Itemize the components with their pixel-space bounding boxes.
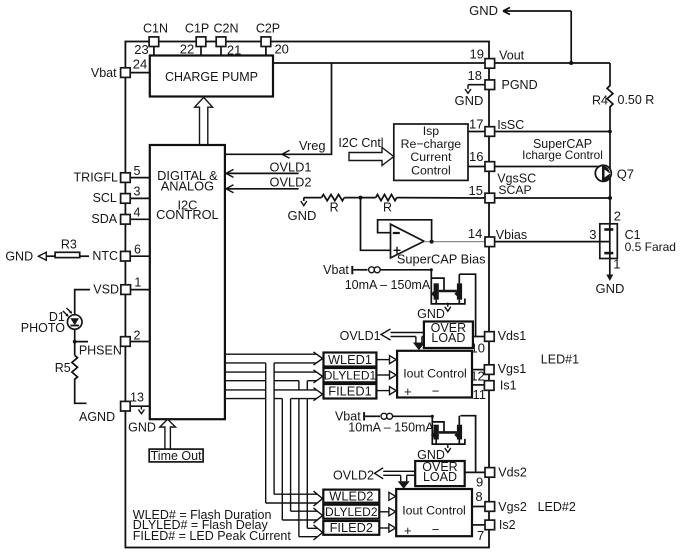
wire hollow arrow I2C Cntl into Isp block	[338, 136, 393, 166]
svg-text:GND: GND	[596, 281, 625, 296]
svg-text:LOAD: LOAD	[431, 331, 465, 345]
svg-text:C2N: C2N	[213, 22, 238, 36]
svg-text:SDA: SDA	[91, 212, 117, 226]
svg-text:C2P: C2P	[256, 22, 280, 36]
wire Vgs1 net (Iout 1 to pin 12)	[472, 369, 485, 371]
svg-text:CHARGE PUMP: CHARGE PUMP	[165, 70, 258, 84]
wire D1 to PHSEN node	[75, 329, 88, 341]
svg-text:0.5 Farad: 0.5 Farad	[625, 240, 676, 254]
pin 6 NTC	[92, 242, 149, 263]
svg-text:SCL: SCL	[93, 191, 117, 205]
wire hollow bus DLYLED1 shaft from digital block	[225, 370, 323, 383]
wire DLYLED1 to Iout 1 with arrow	[376, 371, 396, 379]
wire hollow bus FILED2 shaft	[299, 525, 323, 540]
svg-text:WLED2: WLED2	[329, 489, 373, 504]
svg-text:1: 1	[613, 256, 620, 271]
svg-text:SuperCAP Bias: SuperCAP Bias	[397, 252, 486, 267]
transistor pair current mirror 1	[431, 270, 465, 304]
wire Vds1 net (OVER LOAD 1 to pin 10)	[473, 336, 485, 338]
svg-text:2: 2	[614, 209, 621, 224]
svg-text:Is1: Is1	[500, 378, 517, 392]
FILED1 box	[324, 384, 377, 399]
svg-text:I2C Cntl: I2C Cntl	[338, 136, 383, 150]
svg-text:16: 16	[469, 149, 483, 164]
svg-text:C1P: C1P	[185, 22, 209, 36]
node Vbat tick (LED2 current source)	[335, 410, 380, 424]
svg-text:Vbat: Vbat	[323, 263, 349, 277]
wire divider to pin 15	[397, 197, 485, 199]
current source I2 (10mA-150mA)	[348, 413, 434, 434]
wire GND to resistor R (left)	[304, 197, 322, 199]
svg-text:GND: GND	[469, 3, 498, 18]
svg-text:24: 24	[133, 57, 147, 72]
pin 10 Vds1	[471, 329, 527, 355]
wire VgsSC net pin 16 to Q7 gate	[468, 166, 599, 168]
node Vbat tick (LED1 current source)	[323, 263, 367, 277]
wire SCAP net pin 15 to supercap rail	[495, 197, 610, 199]
wire hollow arrow from digital block to charge pump	[195, 97, 213, 145]
wire Vds2 net (OVER LOAD 2 to pin 9)	[465, 471, 485, 473]
svg-text:GND: GND	[455, 93, 484, 108]
wire hollow arrow from Time Out to digital block	[160, 419, 176, 449]
svg-text:ANALOG: ANALOG	[161, 179, 214, 194]
wire hollow bus WLED1 shaft from digital block	[225, 352, 323, 365]
ground (GND below C1)	[596, 259, 625, 297]
svg-text:20: 20	[274, 42, 288, 57]
svg-text:13: 13	[130, 391, 144, 405]
wire hollow bus DLYLED2 shaft	[282, 508, 322, 523]
wire GND to R3	[46, 255, 55, 257]
wire PHSEN node to R5	[74, 342, 76, 356]
svg-text:R4: R4	[592, 94, 608, 108]
svg-text:PHSEN: PHSEN	[79, 344, 122, 358]
svg-text:Vds1: Vds1	[498, 329, 527, 343]
charge pump block	[150, 56, 273, 97]
pin 23 C1N	[134, 22, 168, 57]
svg-text:VSD: VSD	[93, 282, 119, 296]
svg-text:TRIGFL: TRIGFL	[74, 170, 118, 184]
wire FILED1 to Iout 1 with arrow	[376, 387, 396, 395]
svg-text:R: R	[330, 201, 339, 215]
OVER LOAD block 1	[424, 321, 473, 348]
svg-text:Vout: Vout	[499, 49, 525, 63]
svg-text:8: 8	[475, 489, 482, 504]
svg-text:LED#1: LED#1	[541, 352, 579, 366]
svg-text:NTC: NTC	[92, 249, 118, 263]
svg-text:OVLD1: OVLD1	[270, 159, 312, 174]
resistor R (left of SuperCAP bias)	[322, 195, 345, 215]
pin 15 SCAP	[469, 183, 532, 203]
svg-text:22: 22	[180, 42, 194, 57]
svg-text:−: −	[432, 522, 440, 537]
svg-text:Re−charge: Re−charge	[401, 137, 462, 151]
wire hollow bus FILED1 shaft from digital block	[225, 388, 323, 401]
pin 14 Vbias	[468, 226, 527, 247]
pin 24 Vbat	[91, 57, 150, 80]
svg-text:Q7: Q7	[617, 167, 634, 182]
svg-text:11: 11	[473, 387, 487, 402]
wire IsSC net pin 17 to R4 bottom	[468, 131, 610, 133]
pin 1 VSD	[93, 276, 150, 297]
svg-text:Vbias: Vbias	[496, 228, 527, 242]
svg-text:GND: GND	[417, 307, 445, 321]
svg-text:R5: R5	[55, 361, 71, 375]
resistor R4	[592, 63, 654, 132]
wire OVLD2 hollow arrow from OVER LOAD 2	[333, 468, 415, 489]
Iout Control block 2	[396, 489, 472, 538]
wire VSD stub to photodiode	[75, 290, 90, 315]
svg-text:GND: GND	[128, 421, 156, 435]
pin 13 AGND	[121, 391, 150, 411]
wire WLED2 to Iout 2 arrow	[389, 492, 396, 500]
pin 16 VgsSC	[469, 149, 536, 186]
svg-text:15: 15	[469, 183, 483, 198]
svg-text:DLYLED2: DLYLED2	[325, 505, 378, 519]
pin 20 C2P	[256, 22, 289, 57]
current source I1 (10mA-150mA)	[345, 267, 431, 292]
svg-text:3: 3	[589, 227, 596, 242]
wire current source to mirror 2	[393, 415, 433, 417]
svg-text:Vgs1: Vgs1	[498, 362, 527, 376]
svg-text:OVLD1: OVLD1	[340, 329, 381, 343]
pin 12 Vgs1	[470, 362, 526, 384]
WLED2 box	[323, 489, 379, 504]
wire Is2 net (Iout 2 to pin 7)	[472, 524, 485, 526]
svg-text:18: 18	[468, 68, 482, 83]
svg-text:12: 12	[470, 369, 484, 384]
svg-text:−: −	[432, 384, 440, 399]
pin 22 C1P	[180, 22, 209, 57]
svg-text:Iout Control: Iout Control	[403, 367, 467, 381]
IC boundary outline	[125, 42, 489, 548]
svg-text:9: 9	[476, 475, 483, 490]
svg-text:LED#2: LED#2	[538, 500, 576, 514]
wire mirror 1 output bus down to Vds1	[459, 274, 475, 336]
svg-text:7: 7	[477, 528, 484, 543]
svg-text:0.50 R: 0.50 R	[618, 93, 655, 107]
svg-text:6: 6	[134, 242, 141, 256]
wire DLYLED2 to Iout 2 with arrow	[379, 508, 395, 516]
wire SuperCAP rail (R4 bottom down to C1)	[609, 132, 611, 224]
wire Vout net (charge pump output to pin 19 and R4)	[273, 62, 610, 64]
svg-text:PGND: PGND	[502, 78, 538, 92]
svg-text:4: 4	[134, 206, 141, 220]
svg-text:Icharge Control: Icharge Control	[522, 148, 603, 162]
svg-text:Iout Control: Iout Control	[402, 504, 466, 518]
ground (GND stub at PGND)	[455, 85, 484, 108]
wire OVLD2 stub into digital block	[225, 174, 311, 192]
resistor R3	[55, 238, 80, 258]
wire op-amp output to pin 14 (gray)	[424, 241, 485, 243]
pin 4 SDA	[91, 206, 149, 227]
svg-text:5: 5	[134, 164, 141, 178]
svg-text:CONTROL: CONTROL	[156, 207, 219, 222]
wire op-amp feedback loop	[378, 220, 432, 242]
pin 8 Vgs2	[475, 489, 526, 514]
resistor R (right of junction)	[376, 195, 397, 215]
resistor R5	[55, 355, 78, 380]
DLYLED1 box	[324, 368, 377, 382]
svg-text:PHOTO: PHOTO	[21, 321, 65, 335]
wire FILED2 to Iout 2 with arrow	[379, 524, 395, 532]
svg-text:3: 3	[134, 185, 141, 199]
svg-text:AGND: AGND	[79, 410, 115, 424]
pin 7 Is2	[477, 518, 516, 543]
wire Is1 net (Iout 1 to pin 11)	[472, 384, 485, 386]
ground (GND arrow left end of R divider)	[288, 198, 317, 224]
svg-text:OVLD2: OVLD2	[333, 469, 374, 483]
wire current source to mirror 1	[380, 269, 431, 271]
pin 11 Is1	[473, 378, 517, 402]
pin 18 PGND	[468, 68, 538, 92]
WLED1 box	[324, 352, 377, 367]
svg-text:C1N: C1N	[143, 22, 168, 36]
svg-text:R: R	[383, 201, 392, 215]
svg-text:IsSC: IsSC	[497, 118, 524, 132]
svg-text:Vds2: Vds2	[498, 466, 527, 480]
Time Out block	[149, 449, 203, 463]
Iout Control block 1	[397, 351, 472, 399]
ground (GND arrow under pin 13 wire)	[128, 406, 156, 434]
pin 2 PHSEN	[79, 328, 150, 357]
wire R5 to AGND stub	[75, 381, 87, 404]
OVER LOAD block 2	[415, 460, 465, 486]
FILED2 box	[323, 520, 379, 535]
pin 9 Vds2	[476, 466, 527, 490]
svg-text:WLED1: WLED1	[328, 352, 372, 367]
node PHSEN junction	[73, 340, 77, 344]
op-amp U1 SuperCAP Bias	[391, 224, 486, 266]
svg-text:SCAP: SCAP	[498, 183, 531, 197]
wire OVLD1 hollow arrow from OVER LOAD 1	[340, 329, 425, 350]
wire hollow bus WLED2 shaft	[266, 491, 323, 506]
svg-text:R3: R3	[61, 238, 77, 252]
svg-text:Control: Control	[411, 163, 451, 177]
svg-text:23: 23	[134, 42, 148, 57]
ground (top GND net label with arrow to Vout rail)	[469, 3, 573, 65]
svg-text:Isp: Isp	[423, 124, 440, 138]
ground (GND net label left of R3)	[5, 249, 46, 263]
svg-text:+: +	[404, 384, 412, 399]
transistor Q7	[595, 165, 634, 181]
Isp Re-charge Current Control block	[394, 124, 468, 180]
svg-text:LOAD: LOAD	[423, 470, 457, 484]
wire bus riser pair to WLED2	[266, 363, 274, 503]
svg-text:Time Out: Time Out	[151, 449, 202, 463]
pin 19 Vout	[470, 47, 525, 69]
svg-text:2: 2	[134, 328, 141, 342]
svg-text:OVLD2: OVLD2	[270, 174, 312, 189]
svg-text:10mA – 150mA: 10mA – 150mA	[348, 421, 434, 435]
wire Vgs2 net (Iout 2 to pin 8)	[472, 506, 485, 508]
wire junction down to op-amp + input	[361, 198, 391, 251]
wire Vreg net from Vout rail into digital block	[225, 63, 332, 158]
svg-text:FILED2: FILED2	[330, 520, 373, 535]
svg-text:21: 21	[227, 42, 241, 57]
transistor pair current mirror 2	[431, 416, 465, 444]
wire OVLD1 stub into digital block	[225, 159, 311, 177]
svg-text:Vreg: Vreg	[299, 138, 326, 153]
svg-text:Is2: Is2	[499, 518, 516, 532]
wire WLED1 to Iout 1 with arrow	[376, 356, 396, 364]
wire bus riser pair to FILED2	[299, 381, 307, 537]
pin 5 TRIGFL	[74, 164, 150, 185]
wire mirror 2 output bus down to Vds2	[460, 416, 475, 473]
svg-text:14: 14	[468, 226, 482, 241]
svg-text:FILED1: FILED1	[328, 384, 371, 399]
ground (GND tap mirror 1)	[417, 303, 451, 321]
svg-text:17: 17	[469, 117, 483, 132]
svg-text:19: 19	[470, 47, 484, 62]
DLYLED2 box	[323, 505, 379, 519]
svg-text:Current: Current	[410, 150, 452, 164]
svg-text:FILED# = LED Peak Current: FILED# = LED Peak Current	[133, 529, 292, 543]
pin 17 IsSC	[469, 117, 524, 137]
wire Vbias net pin 14 to C1 terminal 3	[495, 241, 609, 243]
photodiode D1	[21, 308, 82, 335]
svg-text:1: 1	[134, 276, 141, 290]
pin 3 SCL	[93, 185, 150, 206]
wire bus riser pair to DLYLED2	[282, 399, 290, 520]
pin 21 C2N	[213, 22, 241, 58]
ground (GND tap mirror 2)	[417, 444, 451, 462]
svg-text:GND: GND	[288, 208, 317, 223]
digital and analog I2C control block	[150, 145, 225, 419]
svg-text:Vbat: Vbat	[91, 66, 117, 80]
capacitor C1 (supercap)	[589, 209, 676, 272]
svg-text:DLYLED1: DLYLED1	[324, 368, 377, 382]
svg-text:Vgs2: Vgs2	[498, 500, 527, 514]
node R divider junction	[344, 197, 375, 199]
svg-text:+: +	[404, 523, 412, 538]
svg-text:GND: GND	[5, 249, 33, 263]
svg-text:10mA – 150mA: 10mA – 150mA	[345, 278, 431, 292]
wire R3 to NTC pin	[80, 255, 89, 257]
